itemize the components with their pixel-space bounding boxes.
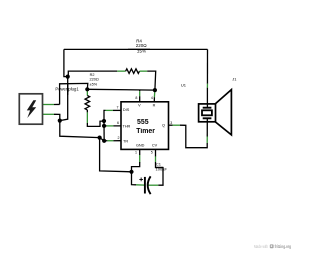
svg-text:555: 555 [137,119,149,126]
lightning bolt [27,100,36,118]
capacitor C1 lead right [148,184,158,186]
svg-text:220Ω: 220Ω [90,78,99,82]
svg-text:1: 1 [135,150,137,154]
node pin4 [153,88,157,92]
wire V node to pin8/pin4 [87,88,155,91]
resistor R4 lead left [117,70,125,72]
wire R4 to pin4 node [147,71,156,90]
speaker J1 [199,90,232,135]
svg-text:2: 2 [118,136,120,140]
svg-text:Timer: Timer [136,128,155,135]
speaker cone [216,90,232,135]
pin 6 THR lead [104,125,107,127]
wire node to R4 rail riser [68,71,118,76]
svg-text:7: 7 [117,106,119,110]
svg-text:6: 6 [117,121,119,125]
wire top rail over R4 label [128,48,150,50]
svg-text:5: 5 [151,150,153,154]
node C1 branch [98,136,102,140]
pin 8 V lead [139,90,141,91]
node GND [129,170,133,174]
node TR [102,139,106,143]
svg-text:THR: THR [123,124,131,128]
svg-text:CV: CV [152,144,158,148]
resistor R4 lead right [140,70,148,72]
wire C1 node down to gnd rail [100,138,132,172]
node DIS [102,119,106,123]
svg-text:Q: Q [162,124,165,128]
wire TR node to C1 node [100,138,105,141]
wire DIS elbow [104,110,106,121]
wire C1 to CV [156,162,164,185]
svg-text:R2: R2 [90,73,95,77]
watermark made with fritzing.org [254,244,291,249]
speaker top lead [206,84,208,88]
svg-text:fritzing.org: fritzing.org [275,244,292,249]
power plug1 box [19,94,42,124]
svg-text:V: V [138,103,141,107]
node V+ left [66,75,70,79]
svg-text:DIS: DIS [123,108,130,112]
resistor R2 lead top [86,89,88,91]
resistor R4 220 ohm zigzag [126,69,140,74]
wire top-left drop to node [64,49,68,76]
capacitor C1 [139,176,150,194]
wire plug plus green to corner [54,103,60,105]
wire plug minus to node [54,114,60,120]
svg-text:Made with: Made with [254,244,268,249]
pin 2 TR lead [104,140,107,142]
resistor R2 lead bottom [86,110,88,113]
svg-text:8: 8 [135,96,137,100]
speaker bottom lead [206,137,208,144]
pin 4 R lead [154,90,156,92]
wire CV elbow over C1 value [156,167,164,169]
svg-text:±5%: ±5% [90,82,98,86]
svg-text:U1: U1 [181,82,187,87]
wire plug plus lead [43,104,55,106]
wire gnd node to C1 plus [132,172,137,185]
wire plug plus to V rail [60,83,88,104]
wire plug minus lead [43,113,55,115]
pin 5 CV lead [155,156,157,162]
svg-text:R: R [153,103,156,107]
wire overlays drawn above labels [68,49,163,167]
C1 plus sign [139,178,143,182]
resistor R2 220 ohm vertical zigzag [85,96,90,110]
node plug minus [58,119,62,123]
svg-text:3: 3 [170,121,172,125]
wire node branch over Power plug1 label [67,84,69,95]
svg-text:220Ω: 220Ω [136,43,148,48]
wire top rail down to speaker [206,49,208,83]
capacitor C1 lead left [136,184,145,186]
pin 1 GND lead [139,149,141,155]
op-amp U1 555 timer box [121,102,169,150]
pin 7 DIS lead [106,109,113,111]
node junction dots [58,75,157,174]
wire Q output to speaker [180,125,207,148]
wire R2 bottom to DIS node [87,121,104,126]
wire node down to plug-minus node [60,77,68,121]
C1 straight plate [144,177,146,194]
svg-text:GND: GND [136,144,145,148]
wire vertical DIS-THR-TR [103,121,105,141]
node R2 top [85,87,89,91]
C1 curved plate [148,176,151,194]
pin 3 Q lead [169,124,173,126]
wire plug-minus node down and right [60,121,100,138]
node THR [102,124,106,128]
svg-text:4: 4 [151,96,153,100]
wire top rail V+ [64,48,208,50]
svg-text:TR: TR [123,139,128,143]
